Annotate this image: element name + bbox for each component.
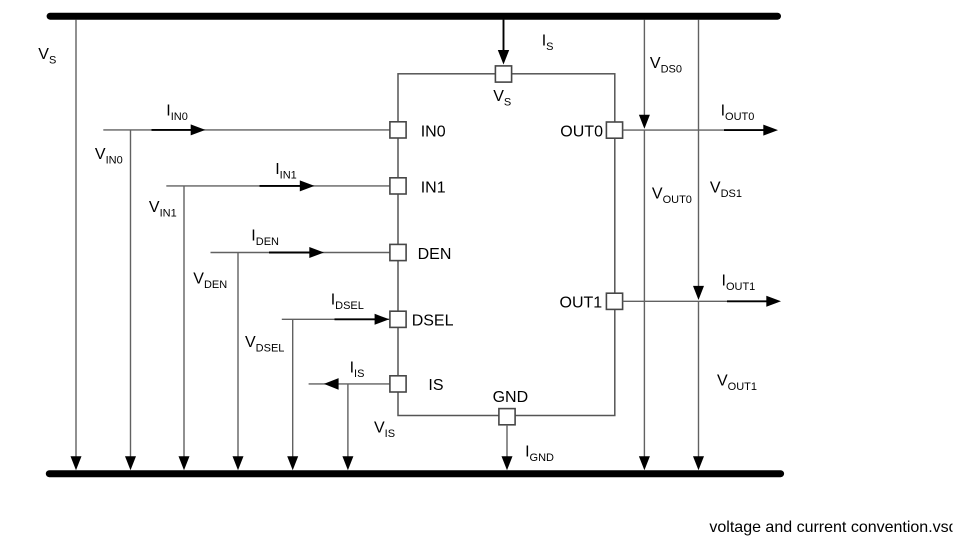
pin square V_S — [495, 66, 511, 82]
pin square OUT1 — [606, 293, 622, 309]
current arrow I_IN0 — [152, 124, 206, 135]
current arrow I_DSEL — [335, 314, 390, 325]
ground rail (bottom bus bar) — [49, 470, 780, 477]
IC body U1 — [398, 74, 615, 416]
pin square IN0 — [390, 122, 406, 138]
svg-text:OUT0: OUT0 — [560, 123, 603, 140]
current arrow I_OUT1 — [727, 296, 781, 307]
wire OUT0 — [623, 129, 724, 131]
wire V_DSEL drop — [287, 319, 298, 470]
wire V_DS0 (top rail to OUT0) — [639, 20, 650, 129]
wire IS — [309, 383, 390, 385]
wire V_OUT0 (OUT0 to ground rail) — [639, 130, 650, 470]
svg-text:DEN: DEN — [418, 246, 452, 263]
footer file name — [709, 519, 957, 536]
current arrow I_S (into V_S pin) — [498, 20, 509, 65]
wire V_S drop — [71, 20, 82, 471]
wire OUT1 — [623, 300, 727, 302]
svg-text:IS: IS — [428, 377, 443, 394]
current arrow I_DEN — [269, 247, 324, 258]
pin square OUT0 — [606, 122, 622, 138]
pin square GND — [499, 409, 515, 425]
pin square DSEL — [390, 311, 406, 327]
svg-text:OUT1: OUT1 — [560, 294, 603, 311]
wire V_DEN drop — [233, 253, 244, 471]
wire I_GND stem — [502, 425, 513, 471]
svg-text:IN0: IN0 — [421, 123, 446, 140]
supply rail (top bus bar) — [50, 13, 777, 20]
wire V_IN1 drop — [179, 186, 190, 470]
wire V_IN0 drop — [125, 130, 136, 470]
wire IN1 — [166, 185, 390, 187]
wire V_OUT1 (OUT1 to ground rail) — [693, 301, 704, 470]
pin square DEN — [390, 244, 406, 260]
svg-text:voltage and current convention: voltage and current convention.vsd — [709, 519, 957, 536]
pin square IN1 — [390, 178, 406, 194]
current arrow I_IN1 — [260, 180, 315, 191]
pin square IS — [390, 376, 406, 392]
wire DEN — [211, 252, 391, 254]
wire V_DS1 (top rail to OUT1) — [693, 20, 704, 300]
wire V_IS drop — [342, 384, 353, 470]
current arrow I_IS (points left) — [324, 378, 339, 390]
current arrow I_OUT0 — [724, 125, 778, 136]
wire DSEL — [282, 318, 391, 320]
svg-text:GND: GND — [493, 389, 529, 406]
wire IN0 — [103, 129, 390, 131]
svg-text:DSEL: DSEL — [412, 313, 454, 330]
svg-text:IN1: IN1 — [421, 179, 446, 196]
